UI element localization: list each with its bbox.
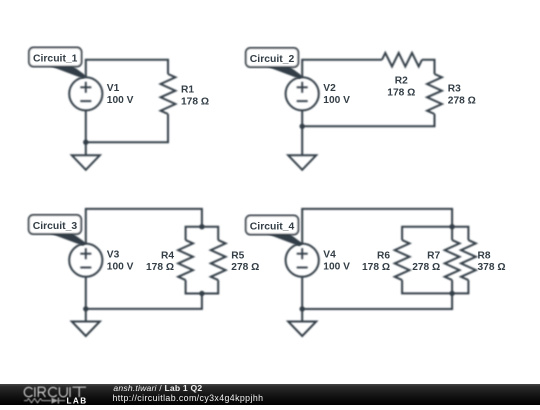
node C1 bottom junction [83,140,88,145]
callout Circuit_2 [246,48,303,79]
svg-text:Circuit_2: Circuit_2 [250,54,295,65]
node C3 bottom junction [199,291,204,296]
svg-text:178 Ω: 178 Ω [362,262,390,273]
label R4 [146,250,174,273]
label V1 [107,83,134,106]
node C3 top junction [199,224,204,229]
svg-text:100 V: 100 V [107,95,134,106]
svg-text:Circuit_3: Circuit_3 [33,221,78,232]
svg-text:R2: R2 [395,76,408,87]
label V2 [323,83,350,106]
svg-text:R6: R6 [377,250,390,261]
wire C3 source bottom lead [85,277,87,322]
wire C4 R8 top bar [452,227,468,240]
label R8 [478,250,506,273]
voltage source V3 [69,244,102,277]
wire C4 source bottom lead [301,277,303,322]
footer bar [0,384,540,405]
wire C4 R6 bottom bar [402,280,452,293]
svg-text:V3: V3 [107,250,120,261]
wire C4 R7 leads [451,227,453,240]
svg-text:278 Ω: 278 Ω [231,262,259,273]
svg-text:278 Ω: 278 Ω [448,95,476,106]
svg-text:Circuit_4: Circuit_4 [250,222,295,233]
node C3 rail junction [83,306,88,311]
ground C4 [288,322,316,337]
label R3 [448,83,476,106]
resistor R5 [211,240,226,280]
wire C4 R8 bottom bar [452,280,468,293]
wire C1 source bottom lead [85,110,87,155]
node C4 rail junction [300,306,305,311]
wire C1 right bottom [86,114,168,142]
svg-text:R3: R3 [448,83,461,94]
svg-text:178 Ω: 178 Ω [146,262,174,273]
svg-text:100 V: 100 V [107,262,134,273]
voltage source V4 [286,244,319,277]
wire C4 R6 top bar [402,227,452,240]
label V3 [107,250,134,273]
resistor R7 [445,240,460,280]
svg-text:100 V: 100 V [323,262,350,273]
svg-text:100 V: 100 V [323,95,350,106]
svg-text:R8: R8 [478,250,491,261]
svg-text:278 Ω: 278 Ω [412,262,440,273]
svg-text:ansh.tiwari / Lab 1 Q2: ansh.tiwari / Lab 1 Q2 [113,383,202,393]
svg-text:178 Ω: 178 Ω [181,97,209,108]
node C4 top junction [449,224,454,229]
svg-text:Circuit_1: Circuit_1 [33,54,78,65]
footer logo symbol wire and resistor [24,398,65,402]
resistor R4 [178,240,193,280]
resistor R2 [382,53,422,67]
wire C3 top bars [186,227,219,240]
svg-text:R7: R7 [427,250,440,261]
wire C4 top rail [302,209,452,244]
resistor R1 [161,74,176,114]
wire C2 right bottom [302,114,434,126]
wire C1 top rail [86,60,168,77]
wire C3 bottom rail [86,294,202,309]
wire C3 top rail [86,209,202,244]
ground C2 [288,155,316,170]
ground C3 [72,322,100,337]
voltage source V1 [69,77,102,110]
label V4 [323,250,350,273]
resistor R3 [427,74,442,114]
svg-text:R5: R5 [231,250,244,261]
svg-text:V2: V2 [323,83,336,94]
footer logo CIRCUIT [24,387,86,397]
label R7 [412,250,440,273]
resistor R6 [395,240,410,280]
ground C1 [72,155,100,170]
callout Circuit_4 [246,216,303,247]
footer logo diode [52,398,60,404]
voltage source V2 [286,77,319,110]
node C4 bottom junction [449,291,454,296]
wire C2 top rail [302,60,382,77]
resistor R8 [461,240,476,280]
label R2 [387,76,415,99]
svg-text:178 Ω: 178 Ω [387,88,415,99]
svg-text:LAB: LAB [67,396,88,405]
callout Circuit_3 [29,215,87,246]
wire C3 bottom bars [186,280,219,293]
svg-text:V4: V4 [323,250,336,261]
svg-text:http://circuitlab.com/cy3x4g4k: http://circuitlab.com/cy3x4g4kppjhh [113,393,264,403]
svg-text:V1: V1 [107,83,120,94]
wire C2 source bottom lead [301,110,303,155]
wire C4 bottom rail [302,280,452,309]
label R6 [362,250,390,273]
svg-text:378 Ω: 378 Ω [478,262,506,273]
svg-text:R1: R1 [181,84,194,95]
svg-text:R4: R4 [161,250,174,261]
label R1 [181,84,209,107]
wire C2 top right corner [422,60,435,74]
callout Circuit_1 [29,48,87,79]
node C2 bottom junction [300,124,305,129]
label R5 [231,250,259,273]
